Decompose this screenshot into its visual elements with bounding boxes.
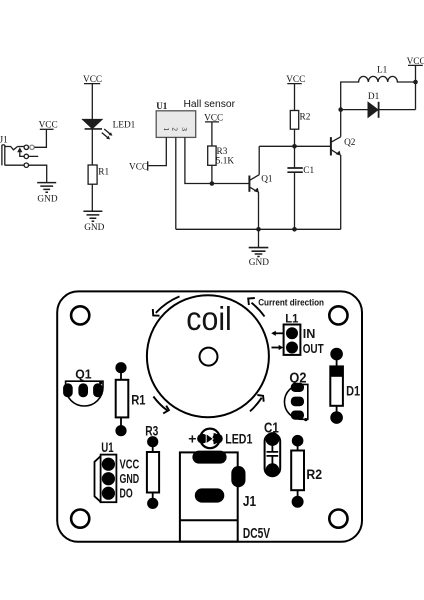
svg-text:DO: DO — [120, 485, 133, 500]
svg-text:Hall sensor: Hall sensor — [184, 99, 236, 110]
resistor R3 — [208, 146, 216, 165]
J1 tip terminal circles — [18, 130, 47, 150]
svg-text:LED1: LED1 — [113, 121, 136, 131]
capacitor C1 — [287, 146, 302, 229]
svg-text:VCC: VCC — [204, 113, 223, 123]
resistor R3 (pcb) — [147, 436, 159, 509]
svg-text:+: + — [188, 430, 196, 446]
capacitor C1 (pcb) — [265, 432, 281, 477]
node C1 bottom junction — [292, 227, 297, 232]
diode D1 (pcb) — [330, 348, 344, 424]
ground GND (LED branch) — [83, 211, 102, 221]
J1 top pad pill — [192, 451, 226, 464]
svg-text:Q2: Q2 — [344, 138, 356, 148]
svg-text:3: 3 — [180, 127, 188, 131]
pad L1 OUT — [286, 342, 298, 354]
Q1 pin-1 marker dot — [99, 381, 102, 384]
J1 sleeve wire — [5, 163, 47, 182]
svg-text:J1: J1 — [243, 494, 256, 510]
svg-text:GND: GND — [37, 194, 57, 204]
wire R3 to node — [211, 165, 213, 183]
wire Q2 collector up — [340, 110, 342, 137]
arrow into IN pad — [271, 331, 283, 336]
IC U1 hall sensor body — [156, 111, 196, 138]
power VCC (J1) — [40, 128, 54, 130]
connector L1 box — [284, 325, 301, 355]
power VCC (top right) — [408, 65, 423, 82]
resistor R2 (pcb) — [291, 435, 304, 508]
LED1 light arrows — [102, 129, 113, 139]
wire LED to R1 — [91, 129, 93, 165]
svg-text:VCC: VCC — [83, 75, 102, 85]
wire VCC led branch — [84, 84, 100, 120]
J1 middle contact wire — [20, 153, 38, 159]
wire Q2 emitter down — [340, 155, 342, 229]
svg-text:D1: D1 — [346, 384, 360, 399]
node R2/C1/base junction — [292, 144, 297, 149]
board outline — [57, 291, 362, 541]
svg-text:R2: R2 — [300, 113, 311, 123]
svg-text:Current direction: Current direction — [258, 298, 324, 308]
inductor L1 — [341, 76, 416, 109]
transistor Q2 — [331, 137, 341, 156]
mounting hole bottom-left — [71, 509, 89, 527]
diode D1 — [341, 102, 416, 118]
svg-text:VCC: VCC — [407, 57, 424, 67]
pad L1 IN — [286, 327, 298, 339]
svg-text:VCC: VCC — [129, 162, 148, 172]
coil arrow south-east — [250, 395, 264, 411]
resistor R1 (pcb) — [115, 362, 128, 436]
svg-text:L1: L1 — [377, 65, 388, 75]
J1 switch arrow — [17, 147, 22, 153]
wire R1 to ground — [91, 184, 93, 211]
svg-text:VCC: VCC — [120, 456, 140, 471]
coil arrow north-west — [153, 296, 180, 315]
svg-text:DC5V: DC5V — [243, 526, 270, 542]
power VCC (R3 branch) — [205, 122, 219, 146]
J1 lower pad pill — [195, 488, 225, 502]
schematic text labels — [0, 57, 424, 268]
pads Q2 — [291, 383, 304, 420]
svg-text:R3: R3 — [217, 147, 228, 157]
svg-text:IN: IN — [303, 326, 316, 341]
svg-text:LED1: LED1 — [225, 431, 252, 447]
node L1 / VCC junction — [413, 80, 418, 85]
mounting hole bottom-right — [329, 509, 347, 527]
wire D1 cathode up to VCC — [415, 82, 417, 110]
svg-text:GND: GND — [249, 258, 269, 268]
svg-text:U1: U1 — [156, 101, 167, 111]
connector J1 outline (pcb) — [180, 452, 238, 541]
ground GND (central) — [249, 229, 269, 256]
resistor R2 — [290, 111, 298, 130]
svg-text:GND: GND — [84, 223, 104, 233]
mounting hole top-left — [71, 306, 89, 324]
svg-text:Q1: Q1 — [75, 366, 91, 381]
arrow out of OUT pad — [272, 345, 284, 350]
svg-text:OUT: OUT — [303, 341, 324, 356]
LED LED1 (pcb) — [197, 429, 223, 449]
svg-text:C1: C1 — [303, 166, 314, 176]
Q2 pin-1 marker dot — [304, 418, 307, 421]
wire Q1 collector up — [258, 146, 260, 174]
svg-text:2: 2 — [171, 127, 179, 131]
ground GND (J1) — [37, 183, 56, 193]
svg-text:L1: L1 — [285, 311, 298, 325]
U1 pin 3 wire to node — [185, 137, 250, 183]
U1 pin 2 wire to ground rail — [175, 137, 177, 229]
wire R2 to base line — [294, 129, 296, 146]
svg-text:VCC: VCC — [286, 75, 305, 85]
pads U1 — [102, 458, 115, 500]
svg-text:R3: R3 — [145, 423, 158, 438]
node R3/U1.3/Q1 junction — [210, 181, 215, 186]
svg-text:coil: coil — [186, 300, 232, 337]
svg-text:U1: U1 — [101, 440, 114, 455]
U1 pin 1 wire to VCC — [148, 137, 167, 170]
coil arrow north-east (current direction) — [248, 298, 264, 317]
node emitter rail junction — [256, 227, 261, 232]
svg-text:GND: GND — [120, 471, 140, 486]
J1 right pad pill — [231, 466, 245, 487]
pads Q1 — [63, 383, 103, 397]
svg-text:1: 1 — [162, 127, 170, 131]
svg-text:D1: D1 — [368, 92, 380, 102]
coil center hole — [200, 348, 218, 366]
wire base line Q1 to Q2 — [259, 145, 331, 147]
LED LED1 — [83, 119, 103, 128]
svg-text:VCC: VCC — [39, 121, 58, 131]
node Q2 collector / D1 / L1 junction — [338, 107, 343, 112]
IC U1 package outline (pcb) — [95, 455, 117, 503]
coil circle — [147, 295, 269, 417]
resistor R1 — [88, 165, 97, 184]
connector J1 body — [2, 145, 5, 166]
mounting hole top-right — [329, 306, 347, 324]
coil arrow south-west — [153, 397, 169, 414]
transistor Q1 — [249, 175, 259, 193]
svg-text:R1: R1 — [131, 392, 146, 407]
wire emitter ground rail — [176, 228, 341, 230]
svg-text:J1: J1 — [0, 136, 8, 146]
J1 tip contact wire — [5, 147, 18, 150]
svg-text:R2: R2 — [306, 466, 322, 482]
power VCC (R2 branch) — [287, 84, 301, 111]
transistor Q2 package outline (pcb) — [284, 384, 307, 419]
wire Q1 emitter down — [258, 192, 260, 229]
svg-text:Q1: Q1 — [261, 175, 273, 185]
svg-text:R1: R1 — [98, 167, 109, 177]
transistor Q1 package outline — [66, 381, 103, 406]
svg-text:5.1K: 5.1K — [216, 156, 235, 166]
